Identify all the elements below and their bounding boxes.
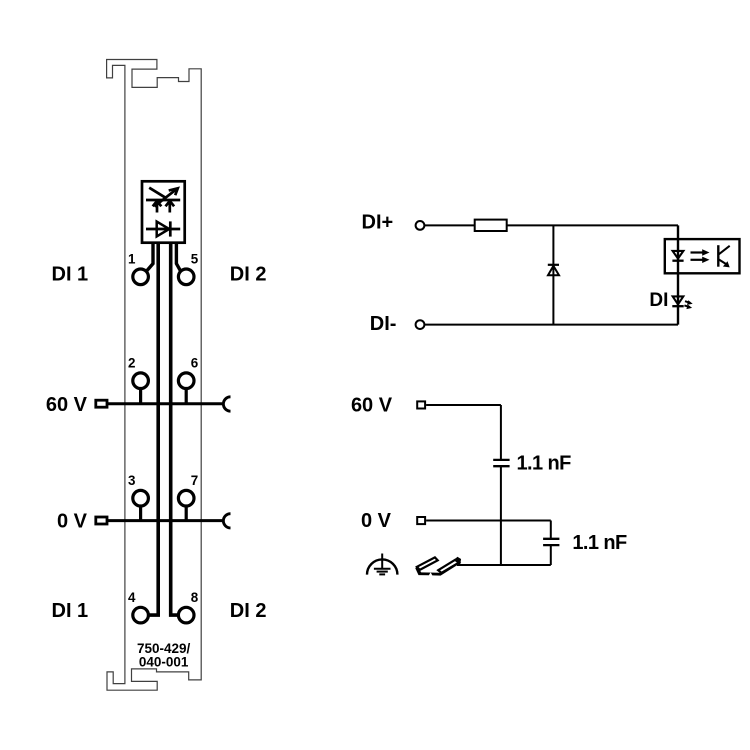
svg-text:DI: DI (649, 290, 668, 311)
svg-text:60 V: 60 V (351, 394, 393, 416)
terminal square 0V (417, 517, 425, 524)
svg-text:0 V: 0 V (57, 510, 88, 532)
svg-text:1.1 nF: 1.1 nF (517, 453, 572, 475)
svg-text:7: 7 (191, 473, 198, 488)
U1 upper symbol: diagonal stroke (149, 188, 166, 199)
wire 0V vertical upper (550, 521, 552, 539)
U2 coupling arrow bottom (691, 259, 704, 261)
U2 LED cathode bar (672, 260, 683, 262)
0V power jumper contact (223, 514, 230, 528)
U1 upper symbol: bar (146, 199, 180, 202)
ground symbol arc (367, 559, 397, 574)
svg-text:60 V: 60 V (46, 394, 88, 416)
terminal DI+ (416, 221, 425, 230)
U1 upper symbol: diagonal arrow head (169, 188, 178, 195)
U1 lower symbol: diode cathode bar (169, 221, 172, 236)
U1 lower symbol: diode triangle (157, 222, 170, 237)
svg-text:5: 5 (191, 251, 199, 266)
DI status LED cathode bar (672, 305, 683, 307)
pin 4 lead to contact 5 (176, 242, 180, 271)
svg-text:6: 6 (191, 356, 198, 371)
capacitor C2 plate 2 (543, 544, 559, 546)
60V power jumper contact (223, 397, 230, 411)
U2 coupling arrow top (691, 251, 704, 253)
ground symbol stem (381, 554, 383, 569)
terminal square 60V (417, 401, 425, 408)
svg-text:0 V: 0 V (361, 510, 392, 532)
DI LED light arrow 1 (685, 301, 690, 303)
DIN rail flange left (417, 557, 438, 570)
terminal DI- (416, 320, 425, 329)
capacitor C1 plate 1 (493, 459, 509, 461)
DI LED light arrow 2 (684, 305, 689, 307)
svg-text:DI-: DI- (370, 313, 397, 335)
contact 7 (178, 490, 194, 506)
60V bus terminal square (96, 400, 107, 407)
wire 60V vertical lower (500, 466, 502, 565)
wire 60V vertical upper (500, 405, 502, 460)
stalk contact 3 (139, 503, 142, 521)
svg-text:3: 3 (128, 473, 135, 488)
contact 1 (133, 269, 149, 285)
U1 upper symbol: diagonal arrow shaft (154, 189, 177, 207)
resistor R1 (475, 220, 507, 231)
wire DI+ to resistor (424, 224, 474, 226)
vertical wire through optocoupler (677, 225, 679, 324)
svg-text:DI 2: DI 2 (230, 264, 267, 286)
stalk contact 7 (185, 503, 188, 521)
svg-text:8: 8 (191, 590, 199, 605)
contact 6 (178, 373, 194, 389)
module outline (107, 60, 202, 691)
contact 3 (133, 490, 149, 506)
pin 1 lead to contact 1 (146, 242, 153, 271)
wire resistor to optocoupler (507, 224, 678, 226)
60V bus wire (108, 402, 223, 405)
electronics box U1 (142, 181, 185, 242)
DIN rail right end cap (455, 558, 461, 564)
svg-text:1.1 nF: 1.1 nF (572, 532, 627, 554)
U2 LED triangle (673, 251, 684, 259)
contact 5 (178, 269, 194, 285)
U1 upper symbol: up arrow B (168, 201, 171, 213)
DI status LED triangle (673, 296, 684, 304)
U1 upper symbol: up arrow A (156, 201, 159, 213)
svg-text:DI+: DI+ (362, 211, 394, 233)
stalk contact 2 (139, 386, 142, 404)
ground symbol bar 1 (374, 568, 391, 570)
wire 0V horizontal (426, 520, 551, 522)
svg-text:4: 4 (128, 590, 136, 605)
wire 0V vertical lower (550, 545, 552, 565)
svg-text:DI 1: DI 1 (52, 264, 89, 286)
svg-text:2: 2 (128, 356, 135, 371)
contact 8 (178, 607, 194, 623)
clamp diode D1 triangle (548, 266, 559, 275)
DIN rail flange right (438, 560, 459, 573)
wire rail to circuit (457, 564, 460, 566)
contact 2 (133, 373, 149, 389)
vertical wire to clamp diode (552, 225, 554, 324)
ground symbol bar 3 (379, 573, 385, 575)
U2 phototransistor collector (718, 246, 729, 255)
svg-text:DI 2: DI 2 (230, 600, 267, 622)
contact 4 (133, 607, 149, 623)
U2 phototransistor emitter (718, 259, 726, 264)
clamp diode D1 cathode bar (548, 264, 559, 266)
0V bus wire (108, 519, 223, 522)
optocoupler box U2 (665, 239, 740, 273)
svg-text:1: 1 (128, 251, 136, 266)
signal line right (box pin3 to contact 8) (171, 242, 180, 615)
wire 60V horizontal (426, 404, 501, 406)
signal line left (box pin2 to contact 4) (148, 242, 159, 615)
U1 lower symbol: diode line (146, 228, 180, 231)
wire DI- row (424, 324, 678, 326)
svg-text:040-001: 040-001 (139, 655, 189, 670)
0V bus terminal square (96, 517, 107, 524)
capacitor C2 plate 1 (543, 538, 559, 540)
capacitor C1 plate 2 (493, 465, 509, 467)
stalk contact 6 (185, 386, 188, 404)
U2 phototransistor base (717, 245, 719, 267)
svg-text:DI 1: DI 1 (52, 600, 89, 622)
DIN rail bottom silhouette band (415, 561, 460, 576)
ground symbol bar 2 (377, 571, 388, 573)
ground bottom wire (457, 564, 551, 566)
